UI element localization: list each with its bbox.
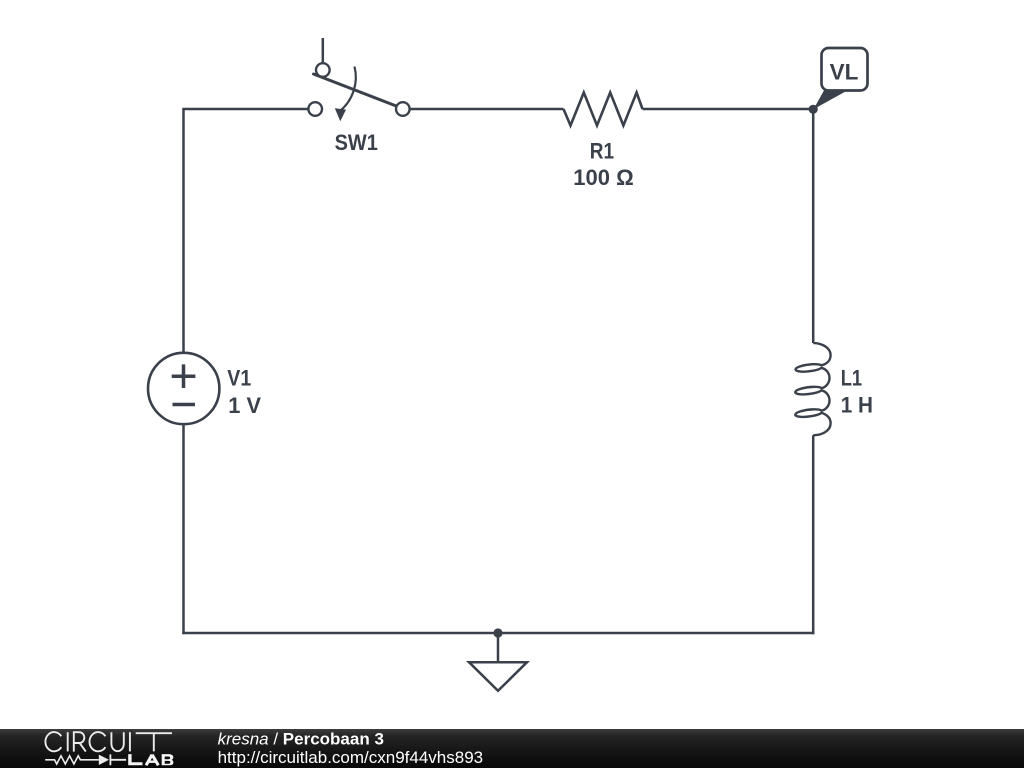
voltage source V1 plus sign xyxy=(172,364,196,388)
voltage source V1 circle xyxy=(148,353,219,424)
CircuitLab logo: CIRCUIT letters xyxy=(45,732,172,752)
wire bottom horizontal xyxy=(182,632,814,635)
logo LAB letter B xyxy=(162,754,174,765)
logo letter U xyxy=(111,732,123,751)
node VL flag box xyxy=(822,48,868,91)
svg-text:1 V: 1 V xyxy=(228,393,261,418)
svg-text:100 Ω: 100 Ω xyxy=(573,165,633,190)
logo diode cathode bar and lead xyxy=(110,754,126,765)
logo letter I2 xyxy=(129,732,131,751)
logo diode triangle xyxy=(99,755,109,765)
switch SW1 right terminal circle xyxy=(396,102,410,116)
switch SW1 top terminal circle xyxy=(316,63,330,77)
logo resistor zigzag xyxy=(45,756,99,764)
switch SW1 action arrow arc xyxy=(340,67,356,112)
wire top left segment xyxy=(182,108,315,111)
logo LAB letter A xyxy=(146,755,158,766)
logo letter T xyxy=(136,733,172,751)
resistor R1 zigzag xyxy=(564,93,643,126)
logo letter C2 xyxy=(90,732,106,751)
svg-text:R1: R1 xyxy=(590,139,614,164)
node VL junction dot xyxy=(809,105,818,114)
switch SW1 top stub wire xyxy=(322,38,325,63)
logo letter C1 xyxy=(45,732,61,751)
footer bar xyxy=(0,729,1024,768)
wire switch to resistor xyxy=(403,108,564,111)
wire right vertical (top part) xyxy=(812,109,815,343)
wire left vertical (bottom part) xyxy=(182,424,185,634)
switch SW1 left terminal circle xyxy=(308,102,322,116)
ground node junction dot xyxy=(493,628,502,637)
logo letter R xyxy=(74,732,86,751)
svg-text:http://circuitlab.com/cxn9f44v: http://circuitlab.com/cxn9f44vhs893 xyxy=(218,748,484,767)
ground symbol triangle xyxy=(469,662,527,691)
logo LAB letter L xyxy=(128,754,142,765)
wire resistor to node VL xyxy=(643,108,814,111)
voltage source V1 minus sign xyxy=(173,403,196,407)
svg-text:1 H: 1 H xyxy=(841,392,873,417)
wire left vertical (top part) xyxy=(182,109,185,353)
logo letter I1 xyxy=(67,732,69,751)
switch SW1 arrowhead xyxy=(335,108,346,121)
node VL flag pointer xyxy=(814,90,846,110)
svg-text:VL: VL xyxy=(830,60,859,85)
inductor L1 coil xyxy=(795,343,830,435)
svg-text:V1: V1 xyxy=(227,366,251,391)
svg-text:L1: L1 xyxy=(841,366,862,391)
wire right vertical (bottom part) xyxy=(812,435,815,634)
switch SW1 lever xyxy=(314,74,398,107)
ground stub wire xyxy=(497,633,500,662)
svg-text:kresna / Percobaan 3: kresna / Percobaan 3 xyxy=(218,730,384,749)
svg-text:SW1: SW1 xyxy=(335,130,378,155)
